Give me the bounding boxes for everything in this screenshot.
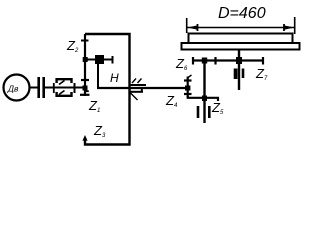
motor Дв [4, 75, 30, 101]
junction sun line / planet axis [83, 57, 88, 62]
dimension arrow right [284, 25, 294, 29]
fixed-link arrow at frame end [82, 135, 87, 141]
drum shaft [238, 50, 240, 90]
bevel gear Z5 on vertical shaft [188, 96, 218, 101]
planet axis [85, 59, 113, 61]
bearing tick left of brake [53, 83, 55, 93]
shaft I continuation [45, 87, 86, 89]
svg-text:Дв: Дв [7, 84, 19, 94]
frame of planetary (ring gear housing) [85, 34, 130, 145]
brake shoe (upper) [57, 79, 72, 84]
svg-text:Z6: Z6 [175, 56, 188, 72]
ring gear Z3 mesh tick [81, 40, 89, 42]
dimension extension line right [294, 17, 296, 34]
carrier H line [97, 87, 189, 89]
drum lower flange rectangle [182, 43, 300, 50]
shaft I (motor to coupling) [30, 87, 38, 89]
bearing tick right of brake [74, 83, 76, 93]
coupling (two half-discs) [39, 77, 44, 98]
svg-text:Z3: Z3 [93, 123, 106, 139]
dimension line [187, 27, 295, 29]
svg-text:Z1: Z1 [88, 98, 100, 114]
gear on vertical shaft bottom (two flank bars) [198, 106, 209, 118]
bearing bracket lower right of frame [130, 89, 144, 100]
svg-text:Z4: Z4 [165, 93, 178, 109]
brake shoe (lower) [57, 91, 72, 96]
junction wheel with drum shaft [236, 57, 242, 64]
svg-text:Z7: Z7 [255, 66, 268, 82]
bearing bracket upper right of frame [130, 79, 147, 86]
svg-text:Z2: Z2 [66, 38, 79, 54]
gear on drum shaft (flank blocks) [234, 69, 238, 80]
drum upper rectangle [189, 34, 293, 44]
dimension arrow left [187, 25, 197, 29]
dimension extension line left [186, 18, 188, 33]
junction of bevel Z5 with vertical shaft [202, 96, 207, 102]
junction pinion with vertical shaft [202, 58, 207, 64]
upper gear pair line (Z6 pinion and Z7 wheel) [193, 57, 263, 65]
planet shaft down to carrier [97, 64, 99, 87]
planet gear Z2 block [95, 55, 104, 64]
svg-text:D=460: D=460 [218, 5, 266, 22]
svg-text:Z5: Z5 [211, 100, 224, 116]
gear Z1 sun gear vertical line [80, 34, 90, 96]
bevel gear Z4 on horizontal shaft [184, 75, 192, 97]
svg-text:H: H [110, 71, 119, 85]
vertical shaft B [203, 61, 205, 124]
